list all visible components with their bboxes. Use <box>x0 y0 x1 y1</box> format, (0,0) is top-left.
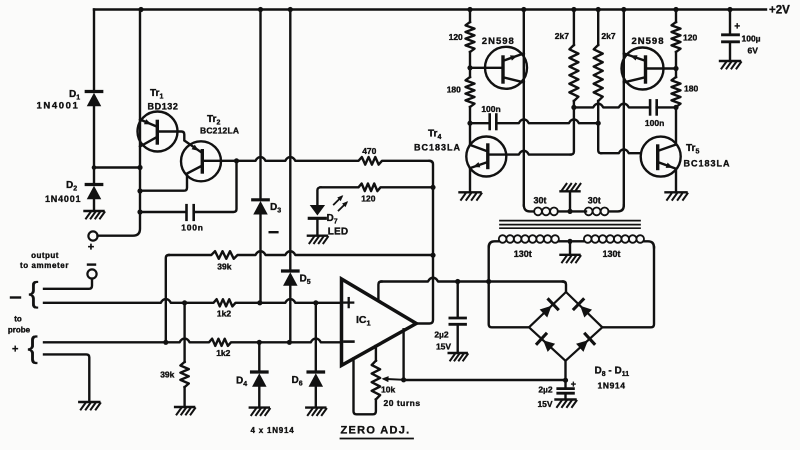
svg-text:BD132: BD132 <box>148 102 179 112</box>
svg-text:1k2: 1k2 <box>217 309 231 319</box>
svg-text:+: + <box>88 242 94 254</box>
svg-text:BC183LA: BC183LA <box>684 159 731 169</box>
svg-text:output: output <box>31 251 59 260</box>
svg-text:10k: 10k <box>381 385 395 395</box>
svg-text:180: 180 <box>447 85 461 95</box>
svg-text:1N4001: 1N4001 <box>37 101 80 112</box>
svg-text:2µ2: 2µ2 <box>538 385 553 395</box>
svg-text:4 x 1N914: 4 x 1N914 <box>250 426 294 435</box>
svg-text:30t: 30t <box>533 196 546 206</box>
svg-text:to ammeter: to ammeter <box>20 261 69 270</box>
svg-text:180: 180 <box>684 84 698 94</box>
svg-text:BC212LA: BC212LA <box>200 126 239 136</box>
svg-text:1k2: 1k2 <box>216 348 230 358</box>
svg-text:+: + <box>571 379 576 389</box>
svg-text:2N598: 2N598 <box>632 36 665 47</box>
svg-text:2µ2: 2µ2 <box>434 330 449 340</box>
svg-text:30t: 30t <box>588 196 601 206</box>
svg-text:2k7: 2k7 <box>555 31 569 41</box>
svg-text:100µ: 100µ <box>742 34 761 44</box>
svg-text:1N914: 1N914 <box>598 381 626 391</box>
svg-text:6V: 6V <box>748 46 759 56</box>
svg-text:+: + <box>12 344 18 356</box>
svg-text:100n: 100n <box>181 223 204 233</box>
svg-text:1N4001: 1N4001 <box>45 194 81 204</box>
svg-text:2N598: 2N598 <box>482 36 515 47</box>
svg-text:{: { <box>29 277 39 310</box>
svg-text:probe: probe <box>8 326 31 335</box>
svg-text:2k7: 2k7 <box>601 31 615 41</box>
svg-text:15V: 15V <box>436 342 451 352</box>
svg-text:120: 120 <box>361 194 375 204</box>
svg-text:15V: 15V <box>537 399 552 409</box>
svg-text:130t: 130t <box>514 249 532 259</box>
svg-text:to: to <box>14 315 22 324</box>
svg-text:{: { <box>28 330 38 365</box>
svg-text:LED: LED <box>328 227 349 238</box>
svg-text:ZERO ADJ.: ZERO ADJ. <box>341 425 411 437</box>
svg-text:120: 120 <box>683 33 697 43</box>
svg-text:+2V: +2V <box>769 5 790 17</box>
svg-text:BC183LA: BC183LA <box>414 143 461 153</box>
svg-text:39k: 39k <box>217 262 231 272</box>
svg-text:39k: 39k <box>160 370 174 380</box>
svg-text:130t: 130t <box>602 249 620 259</box>
svg-text:470: 470 <box>362 146 376 156</box>
svg-text:20 turns: 20 turns <box>384 398 421 408</box>
svg-text:120: 120 <box>449 32 463 42</box>
svg-text:100n: 100n <box>481 104 500 114</box>
svg-text:+: + <box>734 22 740 33</box>
svg-text:100n: 100n <box>645 118 664 128</box>
